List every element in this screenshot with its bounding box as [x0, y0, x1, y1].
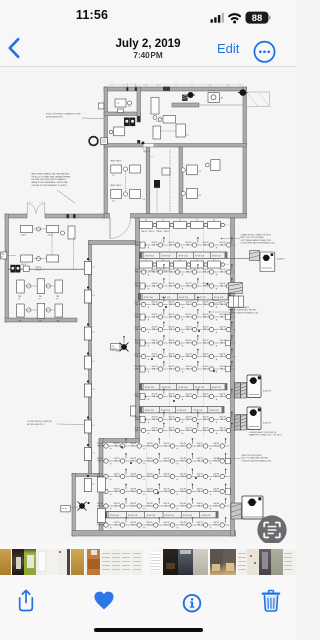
corridor junction box J8: [84, 479, 91, 492]
svg-text:37'x8' V-8: 37'x8' V-8: [146, 515, 156, 517]
outlet row C3: [140, 430, 230, 432]
thumbnail strip: [0, 549, 296, 575]
dashed riser between clusters: [125, 172, 127, 192]
svg-text:T8B LP: T8B LP: [163, 476, 170, 478]
electrical panel P3 (bottom) with blower: [242, 496, 263, 519]
svg-text:2-4: 2-4: [112, 201, 115, 203]
svg-text:T8B LP: T8B LP: [163, 445, 170, 447]
worktable pair mid room: [153, 126, 161, 139]
outlet row B6: [140, 368, 230, 370]
svg-text:AREA TO BE UNSTAINED - NEW LOA: AREA TO BE UNSTAINED - NEW LOAD: [32, 181, 69, 184]
svg-text:T8B LP: T8B LP: [213, 491, 220, 493]
wall: alcove top: [72, 474, 100, 477]
svg-text:37'x8' V-8: 37'x8' V-8: [161, 410, 171, 412]
desk below kitchen wall: [114, 127, 125, 136]
svg-text:2-4: 2-4: [112, 175, 115, 177]
svg-text:T8B LP: T8B LP: [97, 460, 104, 462]
svg-text:T8B LP: T8B LP: [114, 491, 121, 493]
transformer T2 at alcove: [79, 503, 85, 509]
outlet row C2: [140, 419, 230, 421]
desk cluster row 2, middle-left room: [111, 189, 122, 198]
wing workstation column row A: [17, 280, 25, 293]
svg-text:T8B LP: T8B LP: [203, 329, 210, 331]
svg-text:T8B LP: T8B LP: [152, 396, 159, 398]
corridor junction box J1: [84, 262, 91, 275]
svg-text:T8B LP: T8B LP: [203, 271, 210, 273]
door swing in wall F: [144, 144, 154, 147]
svg-text:L3: L3: [93, 267, 95, 269]
svg-text:37'x8' V-8: 37'x8' V-8: [144, 297, 154, 299]
svg-text:L3: L3: [93, 484, 95, 486]
svg-text:T8B LP: T8B LP: [186, 396, 193, 398]
svg-text:T8B LP: T8B LP: [197, 491, 204, 493]
svg-text:ACTIVE LEGS TILL 2: ACTIVE LEGS TILL 2: [27, 423, 45, 426]
svg-text:T8B LP: T8B LP: [152, 430, 159, 432]
svg-text:PACK 'P' 27 AWG BATT (S)T'NEL: PACK 'P' 27 AWG BATT (S)T'NEL: [229, 309, 257, 312]
svg-text:2-4: 2-4: [199, 195, 202, 197]
outlet row D4 (wide lower): [104, 491, 231, 493]
outlet row A2: [140, 271, 230, 273]
workstation desk row 2: [140, 264, 229, 266]
svg-text:37'x8' V-8: 37'x8' V-8: [177, 410, 187, 412]
desk cluster, middle-right room row2: [187, 188, 198, 198]
distribution unit below hatch box: [229, 296, 244, 308]
svg-text:37'x8' V-8: 37'x8' V-8: [214, 297, 224, 299]
dimension tick marks above top wall: [111, 84, 113, 87]
svg-text:T8B LP: T8B LP: [169, 430, 176, 432]
corridor junction box J2: [84, 290, 91, 303]
wall: hall left upper: [136, 218, 140, 442]
svg-text:T8B LP: T8B LP: [152, 368, 159, 370]
svg-text:T8B LP: T8B LP: [220, 244, 227, 246]
desk cluster row 1, middle-left room: [111, 165, 122, 173]
svg-text:T8B LP: T8B LP: [114, 445, 121, 447]
wall: upper block top: [104, 87, 247, 91]
svg-text:T8B LP: T8B LP: [203, 316, 210, 318]
home indicator: [94, 628, 203, 633]
wall: kitchen divider vertical with cased opening: [137, 87, 141, 122]
svg-text:37'x8' V-8: 37'x8' V-8: [161, 297, 171, 299]
svg-text:2-4: 2-4: [128, 106, 131, 108]
svg-text:T8B LP: T8B LP: [180, 524, 187, 526]
wing dashed risers: [51, 233, 53, 255]
svg-text:LP: LP: [56, 299, 59, 301]
svg-text:T8B M T8B LP: T8B M T8B LP: [110, 185, 123, 187]
svg-text:L2 ANLSS BACK TO EXIT/ED 'M': L2 ANLSS BACK TO EXIT/ED 'M': [249, 431, 277, 434]
wing meter box: [23, 266, 29, 271]
svg-text:T8B LP: T8B LP: [114, 505, 121, 507]
outlet row B3: [140, 329, 230, 331]
svg-text:T8B LP: T8B LP: [220, 329, 227, 331]
raceway bar row 4: [140, 407, 225, 413]
svg-text:MECH: MECH: [112, 349, 118, 351]
wing panels PNL (dark pair): [10, 265, 15, 273]
outlet row E1 (bottom): [104, 524, 231, 526]
svg-text:T8B LP: T8B LP: [213, 505, 220, 507]
svg-text:T8B LP: T8B LP: [197, 460, 204, 462]
window marker on top wall: [163, 87, 170, 91]
wall: hall bottom: [72, 531, 236, 537]
svg-text:T8B LP: T8B LP: [169, 342, 176, 344]
raceway bar row 5 (bottom): [105, 512, 219, 518]
file cabinet middle room: [162, 168, 170, 175]
svg-text:T8B LP: T8B LP: [213, 460, 220, 462]
corridor junction box J5: [84, 384, 91, 397]
wall: hall left lower: [99, 439, 103, 534]
control cabinet with gauge, top-right: [208, 93, 219, 103]
svg-text:L3: L3: [93, 295, 95, 297]
desk top-middle room: [163, 116, 176, 124]
svg-text:MAX 27MM & BRACE TAIL MIN MAY: MAX 27MM & BRACE TAIL MIN MAY AND: [32, 173, 70, 176]
svg-text:37'x8' V-8: 37'x8' V-8: [145, 410, 155, 412]
desk cluster, middle-right room row1: [187, 165, 198, 175]
wall: upper block right: [243, 87, 247, 215]
svg-text:T8B LP: T8B LP: [213, 445, 220, 447]
wing desk row 2: [20, 255, 32, 262]
svg-text:T8B LP: T8B LP: [203, 419, 210, 421]
svg-text:T8B LP: T8B LP: [169, 329, 176, 331]
svg-text:2-4: 2-4: [156, 121, 159, 123]
raceway bar row 1: [140, 252, 228, 258]
svg-text:T8B LP: T8B LP: [135, 329, 142, 331]
svg-text:T8B LP: T8B LP: [147, 460, 154, 462]
svg-text:T8B LP: T8B LP: [97, 505, 104, 507]
svg-text:SEC 'P' 27 AWG BATT (S)T'NEL: SEC 'P' 27 AWG BATT (S)T'NEL: [242, 457, 269, 460]
svg-text:T8B LP: T8B LP: [114, 460, 121, 462]
svg-text:2-4: 2-4: [199, 171, 202, 173]
svg-text:(CONCRETE) BACK B/H DRAWN(LLON: (CONCRETE) BACK B/H DRAWN(LLON): [241, 242, 276, 245]
svg-text:T8B LP: T8B LP: [147, 505, 154, 507]
junction box beside fan: [101, 138, 108, 145]
svg-text:37'x8' V-8: 37'x8' V-8: [145, 255, 155, 257]
photo area (white drawing sheet): [0, 67, 296, 543]
svg-text:INCLINE LIGHTING DISTRO PANELS: INCLINE LIGHTING DISTRO PANELS: [32, 178, 67, 181]
wing side desk vertical: [68, 226, 75, 239]
corridor junction box J3: [84, 327, 91, 340]
outlet row D1 (wide lower): [104, 445, 231, 447]
svg-text:A1: A1: [221, 97, 223, 100]
svg-text:T8B LP: T8B LP: [186, 356, 193, 358]
svg-text:T8B LP: T8B LP: [163, 460, 170, 462]
svg-text:T8B M: T8B M: [35, 267, 41, 269]
svg-text:37'x8' V-8: 37'x8' V-8: [128, 515, 138, 517]
svg-text:T8B LP: T8B LP: [186, 342, 193, 344]
svg-text:T8B LP: T8B LP: [130, 445, 137, 447]
corridor junction box J7: [84, 448, 91, 461]
svg-text:T8B LP: T8B LP: [220, 285, 227, 287]
dashed riser middle-right room: [182, 172, 184, 192]
wall: left wing top (with double door): [5, 214, 27, 218]
door jambs on upper top wall: [126, 87, 128, 91]
svg-text:T8B LP: T8B LP: [97, 445, 104, 447]
svg-text:T8B LP: T8B LP: [203, 304, 210, 306]
wall: middle rooms divider left: [146, 147, 150, 214]
pull box on hall left wall: [131, 406, 136, 416]
svg-text:DIAMETRO CONNECTOR - TYP (3) L: DIAMETRO CONNECTOR - TYP (3) LG: [249, 434, 283, 437]
svg-text:T8B LP: T8B LP: [180, 445, 187, 447]
svg-text:SEE B 'ETH M'LL (ANTI): SEE B 'ETH M'LL (ANTI): [242, 454, 263, 457]
outlet row B1: [140, 304, 230, 306]
svg-text:T8B LP: T8B LP: [152, 244, 159, 246]
side table middle-right room: [211, 160, 220, 171]
electrical panel P1 with blower: [235, 383, 241, 399]
svg-text:T8B LP: T8B LP: [186, 244, 193, 246]
svg-text:T8B LP: T8B LP: [163, 524, 170, 526]
svg-text:T8B LP: T8B LP: [152, 316, 159, 318]
svg-text:T8B LP: T8B LP: [197, 445, 204, 447]
svg-text:T8B LP: T8B LP: [169, 368, 176, 370]
wall: upper rooms separator full width: [104, 144, 247, 148]
feeder annotation box at left edge: [1, 252, 7, 259]
equipment pair (dark) below kitchen wall: [124, 118, 130, 127]
svg-text:T8B LP: T8B LP: [203, 356, 210, 358]
toolbar icons: [0, 585, 296, 635]
svg-text:CLAMP IN B HD CLAMP TOP DECK: CLAMP IN B HD CLAMP TOP DECK: [241, 234, 272, 237]
svg-text:37'x8' V-8: 37'x8' V-8: [165, 515, 175, 517]
svg-text:37'x8' V-8: 37'x8' V-8: [178, 255, 188, 257]
svg-text:200 W: 200 W: [21, 235, 26, 237]
svg-text:B-400 HI: B-400 HI: [263, 391, 271, 393]
svg-text:37'x8' V-8: 37'x8' V-8: [212, 387, 222, 389]
small cabinet upper-left room: [118, 109, 124, 113]
svg-text:T8B LP: T8B LP: [220, 419, 227, 421]
wall: upper block left: [104, 87, 108, 215]
dashed riser upper middle room to hall: [169, 150, 171, 213]
wall: corridor connector to hall: [89, 241, 136, 245]
svg-text:37'x8' V-8: 37'x8' V-8: [195, 387, 205, 389]
svg-text:L3: L3: [93, 361, 95, 363]
svg-text:OUTTURNED B/ANB CONNECTION: OUTTURNED B/ANB CONNECTION: [241, 239, 272, 242]
svg-text:T8B LP: T8B LP: [197, 505, 204, 507]
svg-text:T8B LP: T8B LP: [147, 476, 154, 478]
svg-text:PE A DUCTS TRAV THIN TRANSFORM: PE A DUCTS TRAV THIN TRANSFORMER: [32, 175, 71, 178]
svg-text:T8B LP: T8B LP: [135, 430, 142, 432]
svg-text:T8B LP: T8B LP: [163, 505, 170, 507]
svg-text:T8B LP: T8B LP: [130, 505, 137, 507]
svg-text:B400 LP: B400 LP: [213, 303, 221, 305]
live text button: [257, 515, 286, 544]
svg-text:T8B LP: T8B LP: [152, 419, 159, 421]
wing row connector lines: [24, 285, 37, 287]
svg-text:LP: LP: [18, 299, 21, 301]
svg-text:T8B LP: T8B LP: [169, 419, 176, 421]
wall boxes along right wall: [225, 314, 230, 320]
svg-text:T8B LP: T8B LP: [147, 491, 154, 493]
svg-text:T8B LP: T8B LP: [186, 419, 193, 421]
svg-text:T8B LP: T8B LP: [180, 476, 187, 478]
svg-text:T8B LP: T8B LP: [152, 329, 159, 331]
exhaust unit (dark) top-right room: [188, 92, 194, 98]
svg-text:37'x8' V-8: 37'x8' V-8: [195, 255, 205, 257]
wall: left wing bottom: [5, 318, 77, 322]
outlet row B5: [140, 356, 230, 358]
svg-text:B'CRKGT'L AKR B'N DRAW (LLON): B'CRKGT'L AKR B'N DRAW (LLON): [242, 459, 272, 462]
svg-text:T8B LP: T8B LP: [186, 316, 193, 318]
svg-text:L3: L3: [93, 453, 95, 455]
svg-text:T8B LP: T8B LP: [180, 505, 187, 507]
svg-text:T8B LP: T8B LP: [114, 476, 121, 478]
svg-text:T8B LP: T8B LP: [186, 271, 193, 273]
svg-text:T8B LP: T8B LP: [130, 476, 137, 478]
ceiling fan symbol F1: [89, 137, 98, 146]
svg-text:T8B LP: T8B LP: [203, 396, 210, 398]
svg-text:T8B LP: T8B LP: [147, 524, 154, 526]
svg-text:T8B LP: T8B LP: [152, 342, 159, 344]
svg-text:MULT 'B' LLC A' LDG (ARB): MULT 'B' LLC A' LDG (ARB): [241, 236, 264, 239]
svg-text:T8B LP: T8B LP: [152, 304, 159, 306]
svg-text:T8B LP: T8B LP: [152, 356, 159, 358]
hall vertical service runs: [169, 220, 171, 438]
svg-text:B-400 M: B-400 M: [277, 259, 285, 261]
svg-text:37'x8' V-8: 37'x8' V-8: [161, 387, 171, 389]
svg-text:T8B LP: T8B LP: [186, 329, 193, 331]
svg-text:T8B LP: T8B LP: [180, 491, 187, 493]
outlet row B2: [140, 316, 230, 318]
wing service line: [9, 268, 86, 270]
svg-text:T8B LP: T8B LP: [152, 271, 159, 273]
svg-text:LP: LP: [39, 299, 42, 301]
wall: corridor spine: [89, 241, 92, 475]
svg-text:T8B LP: T8B LP: [213, 524, 220, 526]
corridor junction box J4: [84, 356, 91, 369]
svg-text:T8B LP: T8B LP: [169, 244, 176, 246]
exterior hatched box at right wall: [229, 283, 243, 294]
svg-text:T8B LP: T8B LP: [203, 342, 210, 344]
double entry door swing arcs: [26, 203, 28, 215]
svg-text:T8B LP: T8B LP: [197, 524, 204, 526]
panel LP (dark) on divider wall: [154, 180, 160, 188]
outlet row C1: [140, 396, 230, 398]
svg-text:B'CRKGT'L AKR B'N DRAW (LLON): B'CRKGT'L AKR B'N DRAW (LLON): [229, 311, 259, 314]
wall boxes along left wall: [140, 242, 145, 248]
svg-text:T8B LP: T8B LP: [169, 316, 176, 318]
svg-text:T8B LP: T8B LP: [220, 356, 227, 358]
raceway bar row 3: [140, 384, 228, 390]
svg-text:L3: L3: [93, 332, 95, 334]
wall: hall top (with door opening and swing arc): [104, 214, 110, 219]
outlet row A3: [140, 285, 230, 287]
transformer T1 with disconnect (mid corridor): [121, 344, 127, 350]
svg-text:T8B LP: T8B LP: [220, 396, 227, 398]
wall: vestibule wall top right: [172, 103, 199, 107]
svg-text:T8B LP: T8B LP: [135, 304, 142, 306]
svg-text:37'x8' V-8: 37'x8' V-8: [193, 410, 203, 412]
svg-text:37'x8' V-8: 37'x8' V-8: [209, 410, 219, 412]
svg-text:T8B M T8B LP: T8B M T8B LP: [110, 161, 123, 163]
svg-text:T8B LP: T8B LP: [197, 476, 204, 478]
svg-text:T8B LP: T8B LP: [114, 524, 121, 526]
svg-text:T8B LP: T8B LP: [97, 524, 104, 526]
svg-text:T8B LP: T8B LP: [130, 491, 137, 493]
bottom chrome: [0, 543, 296, 640]
electrical panel P2 with blower: [235, 415, 241, 431]
outlet row D3 (wide lower): [104, 476, 231, 478]
misc junction dots in hall: [207, 283, 209, 285]
svg-text:37'x8' V-8: 37'x8' V-8: [161, 255, 171, 257]
outlet row B4: [140, 342, 230, 344]
svg-text:L3: L3: [93, 389, 95, 391]
wall: kitchen divider horizontal: [104, 112, 141, 116]
wall: hall right: [231, 218, 235, 536]
svg-text:T8B LP: T8B LP: [220, 430, 227, 432]
wall: left wing left: [5, 214, 9, 322]
status + nav bar: [0, 0, 296, 67]
workstation desk row 1: [140, 224, 229, 226]
svg-text:T8B LP: T8B LP: [213, 476, 220, 478]
svg-text:T8B LP: T8B LP: [152, 285, 159, 287]
svg-text:T8B LP: T8B LP: [186, 285, 193, 287]
svg-text:37'x8' V-8: 37'x8' V-8: [145, 387, 155, 389]
svg-text:T8B LP: T8B LP: [186, 304, 193, 306]
outlet row A1: [140, 244, 230, 246]
svg-text:L3: L3: [93, 425, 95, 427]
svg-text:T8B LP: T8B LP: [169, 271, 176, 273]
svg-text:24v dn: 24v dn: [62, 508, 67, 510]
svg-text:IF DUCT SYSTEM TO HANDLE 36" A: IF DUCT SYSTEM TO HANDLE 36" A/P: [46, 113, 81, 116]
svg-text:T8B LP: T8B LP: [220, 304, 227, 306]
svg-text:T8B LP: T8B LP: [186, 368, 193, 370]
exterior canopy (dashed): [247, 92, 270, 107]
wall boxes on lower-left wall: [97, 477, 105, 492]
svg-text:2-4: 2-4: [143, 199, 146, 201]
blower unit (dark) at top right corner: [240, 89, 247, 96]
dashed feed between worktables: [161, 130, 176, 132]
svg-text:T8B LP: T8B LP: [130, 524, 137, 526]
svg-text:T8B LP: T8B LP: [169, 396, 176, 398]
svg-text:T8B LP: T8B LP: [203, 285, 210, 287]
svg-text:T8B LP: T8B LP: [180, 460, 187, 462]
meter box outside upper-left wall: [98, 103, 104, 109]
svg-text:T8B LP: T8B LP: [220, 271, 227, 273]
svg-text:37'x8' V-8: 37'x8' V-8: [179, 297, 189, 299]
svg-text:T8B LP: T8B LP: [35, 270, 42, 272]
svg-text:T8B M T8B LP T8B M T8B LP: T8B M T8B LP T8B M T8B LP: [141, 231, 170, 233]
svg-text:37'x8' V-8: 37'x8' V-8: [212, 255, 222, 257]
svg-text:T8B LP: T8B LP: [169, 285, 176, 287]
svg-text:T8B LP: T8B LP: [147, 445, 154, 447]
svg-text:SHOWN IN THIS DRAWING TO SUITE: SHOWN IN THIS DRAWING TO SUITE: [32, 184, 68, 187]
wall: middle rooms divider: [179, 147, 183, 215]
svg-text:37'x8' V-8: 37'x8' V-8: [183, 515, 193, 517]
svg-text:T8B LP: T8B LP: [203, 430, 210, 432]
tall worktable top-middle room: [151, 98, 159, 115]
svg-text:88: 88: [252, 12, 262, 23]
svg-text:37'x8' V-8: 37'x8' V-8: [110, 515, 120, 517]
desk with outlet, upper-left room: [115, 99, 126, 107]
svg-text:NORTH ADDITION: NORTH ADDITION: [46, 115, 63, 118]
svg-text:37'x8' V-8: 37'x8' V-8: [201, 515, 211, 517]
svg-text:T8B LP: T8B LP: [135, 356, 142, 358]
outlet row D5 (wide lower): [104, 505, 231, 507]
svg-text:B-400 HI: B-400 HI: [263, 423, 271, 425]
raceway bar row 2: [139, 294, 231, 300]
svg-text:T8B LP: T8B LP: [169, 304, 176, 306]
meter box for transformer T2: [61, 506, 70, 512]
svg-text:DO FIXTURE IN CORRIDOR: DO FIXTURE IN CORRIDOR: [27, 421, 52, 423]
svg-text:T8B LP: T8B LP: [186, 430, 193, 432]
wall: alcove left: [72, 474, 76, 537]
svg-text:T8B LP: T8B LP: [203, 368, 210, 370]
wing workstation column row B: [17, 304, 25, 317]
svg-text:T8B LP: T8B LP: [203, 244, 210, 246]
svg-text:SEE B 27'9 HP'LL (ANTI): SEE B 27'9 HP'LL (ANTI): [229, 306, 250, 309]
svg-text:37'x8' V-8: 37'x8' V-8: [178, 387, 188, 389]
corridor junction box J6: [84, 420, 91, 433]
hatched equipment box at top wall: [182, 95, 188, 101]
svg-text:T8B LP: T8B LP: [163, 491, 170, 493]
svg-text:T8B LP: T8B LP: [135, 271, 142, 273]
svg-text:T8B LP: T8B LP: [169, 356, 176, 358]
